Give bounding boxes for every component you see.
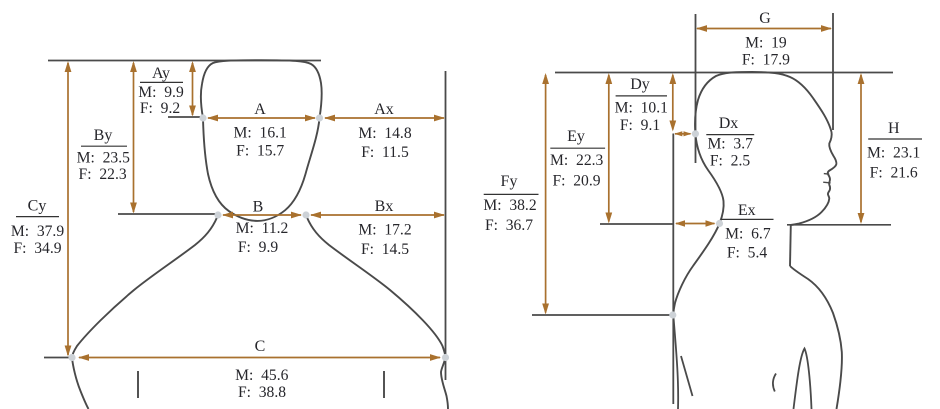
label Ey <box>550 128 605 190</box>
nape: back of neck up to back of head <box>695 134 723 224</box>
svg-text:F: 36.7: F: 36.7 <box>485 217 533 234</box>
label Fy <box>483 173 538 234</box>
chin-level reference tick <box>118 213 218 215</box>
shoulder-level reference tick <box>44 357 72 359</box>
dimension B (horizontal, neck) <box>222 212 302 219</box>
svg-text:M: 22.3: M: 22.3 <box>550 152 603 169</box>
dimension G (horizontal, head length) <box>696 25 832 32</box>
node: right neck point <box>302 211 309 218</box>
node: buttock point <box>669 311 676 318</box>
svg-text:Bx: Bx <box>375 198 394 215</box>
front of neck <box>789 225 792 266</box>
node: back of head point (Dx) <box>692 130 699 137</box>
right trapezius and shoulder <box>307 218 448 409</box>
node: left head point <box>199 114 206 121</box>
label H <box>867 120 922 181</box>
profile face: brow, nose, lips, chin <box>791 132 837 225</box>
dimension By (vertical) <box>130 61 137 214</box>
svg-text:Ex: Ex <box>738 202 756 219</box>
dimension C (horizontal, shoulder breadth) <box>78 354 441 361</box>
svg-text:M: 37.9: M: 37.9 <box>11 223 64 240</box>
top-of-head reference line (right figure) <box>555 72 893 74</box>
svg-text:M: 14.8: M: 14.8 <box>358 125 411 142</box>
svg-text:F: 20.9: F: 20.9 <box>552 173 600 190</box>
svg-text:Cy: Cy <box>28 198 47 215</box>
right chest stroke <box>383 371 385 398</box>
top-of-head reference line <box>48 60 321 62</box>
profile head outline: back of head over crown to brow <box>695 72 832 134</box>
svg-text:B: B <box>253 199 264 216</box>
node: right shoulder point <box>442 354 449 361</box>
label Cy <box>11 198 64 258</box>
svg-text:Ax: Ax <box>374 101 394 118</box>
svg-text:Ay: Ay <box>152 65 170 82</box>
label A <box>234 101 287 160</box>
svg-text:F: 14.5: F: 14.5 <box>361 241 409 258</box>
label Dx <box>706 115 754 170</box>
dimension Ex (horizontal) <box>675 220 716 226</box>
svg-text:C: C <box>255 338 266 355</box>
svg-text:M: 17.2: M: 17.2 <box>358 222 411 239</box>
svg-text:M: 3.7: M: 3.7 <box>707 136 753 153</box>
node: nape point (Ex) <box>716 220 723 227</box>
svg-text:Ey: Ey <box>567 128 585 145</box>
dimension Fy (vertical) <box>542 73 549 315</box>
svg-text:F: 34.9: F: 34.9 <box>13 240 61 257</box>
node: right head point <box>316 114 323 121</box>
svg-text:M: 19: M: 19 <box>745 35 787 52</box>
svg-text:M: 23.1: M: 23.1 <box>867 144 920 161</box>
svg-text:F: 9.9: F: 9.9 <box>238 239 278 256</box>
front shoulder and chest <box>790 266 842 409</box>
dimension Ey (vertical) <box>605 73 612 224</box>
hand mark <box>773 374 776 392</box>
svg-text:M: 11.2: M: 11.2 <box>236 220 289 237</box>
svg-text:Fy: Fy <box>501 173 518 190</box>
chin-level reference line (left of wall) <box>600 223 673 225</box>
svg-text:F: 11.5: F: 11.5 <box>361 144 409 161</box>
svg-text:F: 9.1: F: 9.1 <box>620 117 660 134</box>
svg-text:F: 2.5: F: 2.5 <box>710 153 750 170</box>
label Ay <box>138 65 184 117</box>
svg-text:M: 23.5: M: 23.5 <box>77 150 130 167</box>
eye-level reference tick <box>168 116 203 118</box>
left chest stroke <box>137 371 139 398</box>
svg-text:M: 6.7: M: 6.7 <box>725 225 771 242</box>
svg-text:M: 9.9: M: 9.9 <box>138 84 184 101</box>
svg-text:M: 45.6: M: 45.6 <box>235 367 288 384</box>
svg-text:F: 22.3: F: 22.3 <box>79 166 127 183</box>
left trapezius and shoulder <box>72 218 217 409</box>
head outline (front) <box>201 60 322 118</box>
G left vertical reference (back of head tangent) <box>695 14 697 163</box>
label Dy <box>615 76 668 134</box>
arm inner curve <box>794 349 812 409</box>
buttock-level reference line <box>532 314 673 316</box>
svg-text:Dx: Dx <box>719 115 739 132</box>
jaw and chin outline <box>203 118 320 221</box>
label Ex <box>721 202 773 261</box>
svg-text:F: 5.4: F: 5.4 <box>727 244 767 261</box>
chin-level reference line (right side) <box>787 224 891 226</box>
node: left neck point <box>214 211 221 218</box>
G right vertical reference (forehead tangent) <box>832 13 834 130</box>
right vertical reference line <box>445 71 447 380</box>
label Bx <box>358 198 411 258</box>
label Ax <box>358 101 411 161</box>
dimension Dx (small horizontal) <box>674 131 691 136</box>
svg-text:F: 9.2: F: 9.2 <box>140 100 180 117</box>
svg-text:Dy: Dy <box>630 76 650 93</box>
svg-text:G: G <box>759 10 771 27</box>
node: left shoulder point <box>68 354 75 361</box>
svg-text:A: A <box>254 101 266 118</box>
svg-text:F: 38.8: F: 38.8 <box>238 384 286 401</box>
back wall reference line <box>672 134 674 405</box>
dimension Dy (vertical) <box>669 73 676 132</box>
leg diagonal stroke <box>681 356 693 396</box>
nostril mark <box>824 173 829 176</box>
dimension Ax (horizontal) <box>324 115 445 122</box>
svg-text:M: 38.2: M: 38.2 <box>483 197 536 214</box>
label C <box>235 338 288 401</box>
dimension H (vertical) <box>858 73 865 224</box>
svg-text:F: 15.7: F: 15.7 <box>236 143 284 160</box>
svg-text:M: 10.1: M: 10.1 <box>615 100 668 117</box>
mouth mark <box>823 181 830 184</box>
dimension Bx (horizontal) <box>310 212 445 219</box>
label G <box>742 10 790 68</box>
dimension Cy (vertical) <box>65 61 72 357</box>
svg-text:M: 16.1: M: 16.1 <box>234 125 287 142</box>
svg-text:F: 21.6: F: 21.6 <box>870 165 918 182</box>
svg-text:By: By <box>94 127 113 144</box>
dimension Ay (vertical) <box>189 61 196 117</box>
svg-text:H: H <box>888 120 900 137</box>
svg-text:F: 17.9: F: 17.9 <box>742 51 790 68</box>
label B <box>236 199 289 256</box>
buttock and thigh back <box>673 315 678 409</box>
dimension A (horizontal, head breadth) <box>207 115 316 122</box>
label By <box>77 127 130 183</box>
upper back: nape down to buttock <box>673 224 719 316</box>
